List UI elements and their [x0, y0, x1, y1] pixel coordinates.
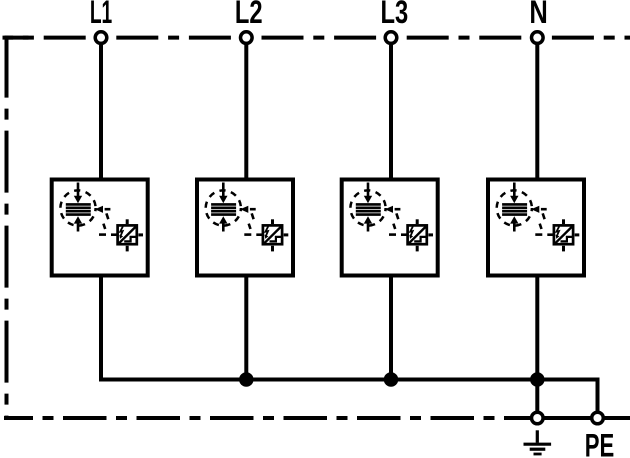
- spark gap F2 (L2): top electrode arrow: [219, 183, 227, 204]
- wire: bottom solid PE link through terminals to right edge: [513, 416, 630, 420]
- spark gap F3 (L3): dashed circle (isolated spark gap): [350, 190, 385, 225]
- step waveform glyph inside U4 (N): [561, 237, 573, 242]
- terminal L2 (top): [241, 32, 253, 44]
- surge/lightning flash glyph inside U4 (N): [556, 226, 560, 239]
- SPD module L2: protection box outline: [197, 180, 293, 276]
- trigger/arrester unit U4 (N): square symbol: [554, 219, 579, 251]
- trigger/arrester unit U2 (L2): square symbol: [263, 219, 288, 251]
- wire: top phase bus (dash-dot boundary line): [3, 36, 630, 40]
- step waveform glyph inside U1 (L1): [124, 237, 136, 242]
- ground (earth symbol): [524, 430, 552, 454]
- spark gap F4 (N): dashed circle (isolated spark gap): [497, 190, 532, 225]
- svg-text:PE: PE: [585, 427, 614, 458]
- svg-text:L3: L3: [380, 0, 408, 31]
- trigger/arrester unit U1 (L1): square symbol: [118, 219, 143, 251]
- spark gap F1 (L1): electrode stack plates: [66, 204, 91, 214]
- wire: N drop from terminal to module: [535, 43, 539, 179]
- coupling link (dashed) between spark gap and trigger circuit (L1): [99, 213, 117, 234]
- spark gap F3 (L3): top electrode arrow: [364, 183, 372, 204]
- spark gap F2 (L2): electrode stack plates: [211, 204, 236, 214]
- svg-text:N: N: [529, 0, 547, 31]
- spark gap F1 (L1): trigger arrow pointing at gap: [95, 206, 111, 213]
- wire: top-left corner dash of boundary: [5, 36, 29, 40]
- surge/lightning flash glyph inside U1 (L1): [119, 226, 123, 239]
- step waveform glyph inside U3 (L3): [414, 237, 426, 242]
- svg-text:L2: L2: [235, 0, 263, 31]
- wire: L1 module down to common bus: [99, 276, 103, 382]
- spark gap F1 (L1): bottom electrode arrow: [74, 216, 82, 231]
- wire: left dash-dot boundary line: [5, 36, 9, 420]
- spark gap F3 (L3): bottom electrode arrow: [364, 216, 372, 231]
- svg-text:L1: L1: [90, 0, 112, 30]
- wire: N module to bottom terminal (through junction): [535, 276, 539, 412]
- junction: N to bus: [530, 372, 545, 387]
- spark gap F2 (L2): bottom electrode arrow: [219, 216, 227, 231]
- spark gap F4 (N): bottom electrode arrow: [510, 216, 518, 231]
- spark gap F2 (L2): trigger arrow pointing at gap: [240, 206, 256, 213]
- wire: L2 drop from terminal to module: [244, 43, 248, 179]
- SPD module N: protection box outline: [488, 180, 584, 276]
- surge/lightning flash glyph inside U2 (L2): [265, 226, 269, 239]
- junction: L2 to bus: [239, 372, 254, 387]
- wire: L2 module down to common bus: [244, 276, 248, 382]
- wire: L3 module down to common bus: [389, 276, 393, 382]
- spark gap F1 (L1): top electrode arrow: [74, 183, 82, 204]
- spark gap F4 (N): electrode stack plates: [502, 204, 527, 214]
- terminal N (top): [532, 32, 544, 44]
- spark gap F2 (L2): dashed circle (isolated spark gap): [206, 190, 241, 225]
- terminal PE (bottom right): [592, 412, 604, 424]
- spark gap F4 (N): trigger arrow pointing at gap: [531, 206, 547, 213]
- SPD module L1: protection box outline: [52, 180, 148, 276]
- surge/lightning flash glyph inside U3 (L3): [409, 226, 413, 239]
- terminal: earthed neutral/PEN (bottom): [532, 412, 544, 424]
- coupling link (dashed) between spark gap and trigger circuit (L2): [244, 213, 262, 234]
- wire: L3 drop from terminal to module: [389, 43, 393, 179]
- coupling link (dashed) between spark gap and trigger circuit (N): [535, 213, 553, 234]
- SPD module L3: protection box outline: [342, 180, 438, 276]
- wire: bottom dash-dot boundary line (PE bus): [4, 416, 513, 420]
- coupling link (dashed) between spark gap and trigger circuit (L3): [389, 213, 407, 234]
- spark gap F1 (L1): dashed circle (isolated spark gap): [60, 190, 95, 225]
- step waveform glyph inside U2 (L2): [270, 237, 282, 242]
- spark gap F4 (N): top electrode arrow: [510, 183, 518, 204]
- terminal L3 (top): [385, 32, 397, 44]
- wire: common bottom bus to PE: [99, 380, 598, 414]
- spark gap F3 (L3): electrode stack plates: [356, 204, 381, 214]
- wire: L1 drop from terminal to module: [99, 43, 103, 179]
- trigger/arrester unit U3 (L3): square symbol: [408, 219, 433, 251]
- spark gap F3 (L3): trigger arrow pointing at gap: [385, 206, 401, 213]
- junction: L3 to bus: [384, 372, 399, 387]
- terminal L1 (top): [95, 32, 107, 44]
